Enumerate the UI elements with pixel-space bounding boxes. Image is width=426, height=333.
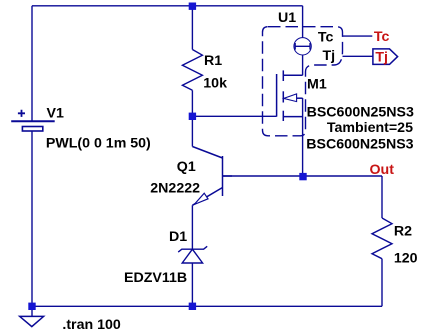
svg-text:V1: V1 (47, 105, 64, 121)
svg-text:120: 120 (394, 250, 418, 266)
U1 dashed block outline (263, 27, 343, 136)
svg-text:EDZV11B: EDZV11B (124, 270, 187, 286)
wire Tc pin stub (343, 35, 373, 37)
wire Q1 emitter to D1 (191, 205, 193, 249)
wire V1 top lead (31, 6, 33, 122)
svg-text:PWL(0 0 1m 50): PWL(0 0 1m 50) (46, 135, 151, 151)
wire Tj pin stub (343, 55, 373, 57)
wire bottom rail (32, 305, 382, 307)
mosfet M1 nmos (277, 70, 303, 121)
port flag Tj (373, 49, 398, 65)
wire M1 drain from rail to sensor (302, 6, 304, 38)
svg-text:Q1: Q1 (177, 159, 196, 175)
svg-text:BSC600N25NS3: BSC600N25NS3 (306, 136, 413, 152)
svg-text:R2: R2 (394, 224, 412, 240)
wire R1 top lead (191, 6, 193, 50)
wire R2 bottom lead (381, 259, 383, 307)
wire V1 bottom lead (31, 131, 33, 306)
junction bottom left (28, 303, 35, 310)
svg-text:Tj: Tj (323, 48, 336, 64)
wire ground stub (31, 306, 33, 316)
svg-text:Tambient=25: Tambient=25 (327, 120, 413, 136)
wire R1 bottom lead (191, 90, 193, 116)
U1 thermal sense circle (294, 38, 311, 55)
wire Q1 collector riser (191, 116, 193, 146)
resistor R2 (372, 218, 392, 259)
junction top rail R1 (189, 3, 196, 10)
svg-text:M1: M1 (307, 77, 327, 93)
wire sensor to M1 drain stub (302, 55, 304, 75)
svg-text:.tran 100: .tran 100 (62, 317, 120, 333)
voltage source V1 battery symbol (11, 110, 55, 131)
svg-text:Out: Out (370, 162, 395, 178)
junction gate node (189, 113, 196, 120)
junction bottom D1 (189, 303, 196, 310)
wire top rail (32, 5, 303, 7)
svg-text:Tj: Tj (375, 49, 388, 65)
svg-text:U1: U1 (278, 10, 296, 26)
svg-text:Tc: Tc (318, 30, 334, 46)
svg-text:Tc: Tc (374, 29, 390, 45)
wire gate wire to M1 (192, 115, 276, 117)
ground (20, 316, 44, 326)
resistor R1 (182, 50, 202, 91)
wire M1 source to Out rail (302, 98, 304, 176)
svg-text:2N2222: 2N2222 (150, 181, 200, 197)
junction Out node (299, 173, 306, 180)
wire R2 top lead (381, 176, 383, 218)
svg-text:10k: 10k (203, 75, 227, 91)
svg-text:R1: R1 (204, 53, 222, 69)
wire Out rail (223, 175, 383, 177)
diode D1 zener (178, 246, 207, 263)
wire D1 anode to bottom rail (191, 263, 193, 306)
svg-text:D1: D1 (169, 229, 187, 245)
svg-text:BSC600N25NS3: BSC600N25NS3 (307, 105, 414, 121)
transistor Q1 npn (192, 147, 232, 206)
